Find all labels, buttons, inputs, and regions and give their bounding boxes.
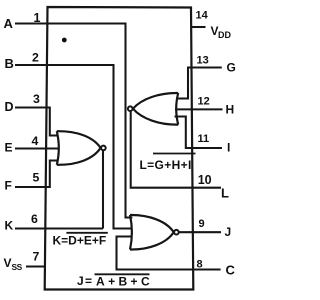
wire K pin6: [15, 227, 103, 229]
svg-text:A+B+C: A+B+C: [96, 275, 153, 289]
wire NOR U3 output to pin 9: [179, 231, 221, 233]
svg-text:12: 12: [198, 96, 210, 108]
NOR U1 output bubble: [101, 146, 106, 151]
svg-text:11: 11: [198, 133, 210, 145]
wire NOR U2 output to pin 10: [131, 111, 221, 187]
svg-text:I: I: [227, 141, 230, 155]
svg-text:F: F: [5, 179, 12, 193]
svg-text:14: 14: [196, 10, 209, 22]
svg-text:SS: SS: [12, 262, 23, 272]
overline for L equation: [153, 153, 196, 155]
svg-text:H: H: [226, 103, 235, 117]
NOR U3 output bubble: [174, 230, 179, 235]
NOR U2 output bubble: [128, 106, 133, 111]
NOR gate U2 (G,H,I inputs, points left) body: [128, 93, 178, 125]
svg-text:K=D+E+F: K=D+E+F: [53, 234, 107, 248]
svg-text:V: V: [4, 256, 12, 270]
stray ink dot: [62, 38, 67, 43]
svg-text:L: L: [221, 186, 229, 201]
wire F pin5 to NOR U1 bottom input: [15, 161, 58, 188]
wire A pin1 to NOR U3 top input: [15, 24, 132, 218]
svg-text:2: 2: [32, 51, 39, 65]
svg-text:G: G: [227, 61, 236, 75]
svg-text:10: 10: [198, 173, 212, 187]
svg-text:E: E: [5, 141, 13, 155]
wire G pin13 to NOR U2 top input: [176, 68, 222, 99]
svg-text:DD: DD: [218, 30, 231, 40]
svg-text:J: J: [77, 274, 84, 288]
NOR gate U1 (D,E,F inputs) body: [57, 131, 106, 165]
svg-text:3: 3: [33, 92, 40, 106]
svg-text:K: K: [5, 219, 14, 233]
svg-text:=: =: [85, 274, 92, 288]
svg-text:A: A: [4, 16, 14, 31]
svg-text:D: D: [5, 100, 14, 114]
svg-text:B: B: [5, 56, 14, 71]
IC package outline: [45, 7, 194, 290]
svg-text:6: 6: [31, 212, 38, 226]
svg-text:J: J: [225, 225, 232, 239]
wire B pin2 to NOR U3 middle input: [15, 65, 132, 229]
wire VSS pin7 stub: [26, 265, 46, 267]
svg-text:C: C: [226, 263, 236, 278]
NOR gate U3 (A,B,C inputs) body: [130, 215, 179, 250]
wire I pin11 to NOR U2 bottom input: [175, 117, 223, 149]
wire VDD pin14 stub: [191, 26, 206, 28]
wire E pin4 to NOR U1 middle input: [15, 147, 59, 149]
svg-text:4: 4: [32, 134, 39, 148]
wire C pin8 to NOR U3 bottom input: [117, 237, 221, 270]
svg-text:5: 5: [33, 171, 40, 185]
wire D pin3 to NOR U1 top input: [15, 108, 58, 136]
svg-text:9: 9: [199, 218, 205, 230]
svg-text:7: 7: [33, 250, 40, 264]
wire H pin12 to NOR U2 middle input: [175, 108, 223, 110]
wire NOR U1 output riser: [102, 150, 104, 228]
svg-text:13: 13: [197, 55, 209, 67]
overline for J equation: [95, 273, 150, 275]
overline for K equation: [66, 232, 107, 234]
svg-text:L=G+H+I: L=G+H+I: [140, 158, 192, 172]
